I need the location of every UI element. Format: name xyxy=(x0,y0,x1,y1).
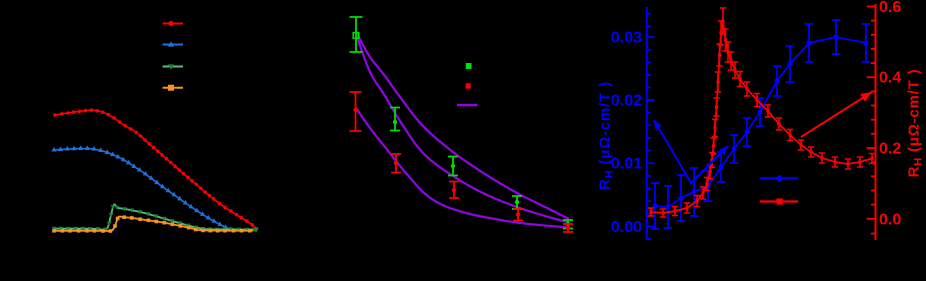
panel3 blue data error bars xyxy=(651,20,870,229)
panel2 purple fit curve middle xyxy=(357,37,569,223)
panel1 green down-triangle markers xyxy=(52,205,259,233)
panel3 legend blue entry xyxy=(760,175,798,183)
panel3 blue axis major and minor ticks xyxy=(647,14,655,239)
panel3 blue tick labels xyxy=(611,30,642,236)
svg-text:0.02: 0.02 xyxy=(611,93,642,110)
panel2 green data markers xyxy=(353,33,570,227)
panel3 red annotation arrow to right axis xyxy=(801,92,872,137)
panel2 purple fit curve lower xyxy=(356,108,569,228)
panel2 legend purple line xyxy=(457,104,478,107)
panel2 purple fit curve upper xyxy=(357,34,569,219)
panel3 blue data line xyxy=(655,37,866,207)
panel1 red curve circle markers xyxy=(53,108,258,230)
panel3 red axis major and minor ticks xyxy=(867,7,876,234)
panel3 blue left axis line xyxy=(646,7,648,240)
panel3 red data error bars xyxy=(648,8,875,217)
panel1 blue triangle markers xyxy=(51,145,233,231)
panel3 red right axis line xyxy=(875,4,877,240)
panel1 green curve line xyxy=(54,205,256,230)
panel1 legend red entry xyxy=(163,21,184,26)
panel1 legend blue entry xyxy=(163,41,184,46)
svg-text:0.03: 0.03 xyxy=(611,30,642,47)
panel2 legend green square xyxy=(466,63,472,69)
panel3 red data markers xyxy=(649,19,873,214)
panel2 green data error bars xyxy=(350,17,574,229)
panel1 legend orange entry xyxy=(163,85,184,91)
panel3 blue data square markers xyxy=(653,35,868,209)
svg-text:0.00: 0.00 xyxy=(611,219,642,236)
svg-text:0.0: 0.0 xyxy=(879,211,901,228)
panel3 red tick labels xyxy=(879,0,901,228)
svg-text:0.4: 0.4 xyxy=(879,70,901,87)
panel1 orange curve line xyxy=(54,217,253,232)
panel2 red data markers xyxy=(353,108,570,230)
svg-text:0.2: 0.2 xyxy=(879,141,901,158)
panel3 red data line xyxy=(651,21,872,213)
panel2 red data error bars xyxy=(350,92,574,232)
panel2 legend red square xyxy=(466,83,471,88)
panel3 blue bent annotation arrow to axis and curve xyxy=(654,120,728,183)
panel1 legend green entry xyxy=(163,64,184,69)
panel3 legend red entry xyxy=(760,198,798,204)
panel1 red curve line xyxy=(55,110,257,229)
panel1 blue curve line xyxy=(54,149,235,232)
panel1 orange square markers xyxy=(52,215,251,232)
svg-text:0.6: 0.6 xyxy=(879,0,901,16)
